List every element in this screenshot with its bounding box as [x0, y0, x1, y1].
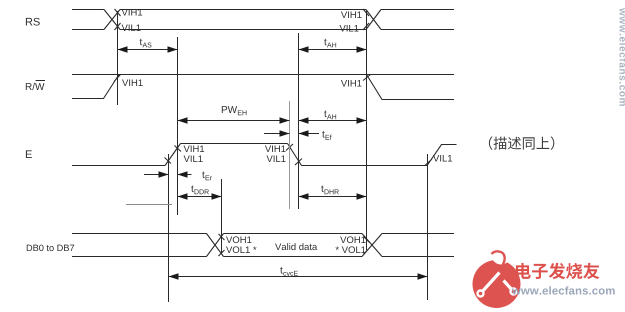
node watermark url text — [512, 286, 615, 294]
wire tcycE dimension arrow — [169, 273, 428, 280]
wire RS low level — [72, 29, 454, 31]
wire R/W low level and rising edge — [72, 75, 121, 99]
wire tEf dimension arrows — [264, 130, 319, 137]
wire dimension reference line tDDR end — [221, 179, 223, 253]
node RS VIH1 label right — [341, 11, 362, 18]
node DB VOL1 label right — [336, 246, 366, 253]
node E VIL1 label left — [184, 155, 203, 162]
node R/W VIH1 label left — [122, 79, 143, 86]
wire dimension reference line vA — [289, 101, 291, 209]
node RS signal name label — [26, 18, 40, 26]
wire tAH dimension arrow middle — [299, 117, 367, 124]
node tDHR label — [321, 186, 339, 195]
node DB0 to DB7 signal name label — [27, 245, 74, 252]
node tDDR label — [191, 186, 209, 195]
node DB valid data label — [275, 243, 317, 250]
node E VIL1 label far right — [433, 155, 452, 162]
wire dimension reference line v6 tcyc end — [427, 154, 429, 300]
wire DB high level — [72, 233, 454, 235]
node E VIH1 label right — [265, 145, 286, 152]
node RS VIL1 label left — [122, 24, 141, 31]
node tAS label — [140, 39, 152, 48]
node tEr label — [202, 172, 212, 181]
wire E low level left — [72, 165, 165, 167]
wire DB low level — [72, 256, 454, 258]
wire dimension reference line v2 — [177, 37, 179, 215]
wire dimension reference line v1 — [117, 11, 119, 105]
wire R/W label overline — [36, 80, 45, 82]
wire E high level — [181, 143, 288, 145]
node R/W signal name label — [26, 83, 45, 90]
wire E rising edge — [165, 144, 182, 166]
node RS left crossover — [104, 9, 121, 30]
node watermark vertical url text — [619, 8, 625, 106]
node R/W VIH1 label right — [341, 80, 362, 87]
wire RS high level — [72, 9, 454, 11]
wire tEr dimension arrows — [144, 171, 192, 178]
node watermark chinese brand text — [516, 263, 599, 279]
wire R/W falling edge and low level — [363, 75, 454, 100]
node DB VOL1 label left — [226, 246, 256, 253]
wire tAH dimension arrow top — [299, 46, 367, 53]
node tAH label top — [324, 39, 336, 48]
node DB right crossover — [362, 234, 382, 257]
wire E low level right — [302, 165, 428, 167]
node DB VOH1 label right — [340, 236, 365, 243]
wire dimension reference line v5 — [366, 11, 368, 250]
wire dimension reference line v3 tcyc start — [168, 154, 170, 302]
node E signal name label — [26, 150, 32, 158]
wire E second rising edge — [425, 145, 457, 166]
node watermark logo circle — [473, 246, 521, 309]
wire tDDR dimension arrow — [178, 193, 222, 200]
wire tDHR dimension arrow — [299, 193, 367, 200]
node RS VIH1 label left — [122, 9, 143, 16]
node RS VIL1 label right — [339, 25, 358, 32]
node chinese annotation — [489, 136, 554, 150]
node DB left crossover — [207, 234, 225, 257]
wire E falling edge — [286, 144, 302, 166]
node E VIH1 label left — [184, 145, 205, 152]
node PWEH label — [222, 106, 247, 115]
wire PWEH dimension arrow — [178, 117, 290, 124]
wire dimension reference line vB — [298, 33, 300, 209]
wire stray leader line — [126, 204, 172, 206]
node RS right crossover — [363, 9, 381, 30]
node tcycE label — [280, 267, 298, 277]
node tAH label middle — [324, 111, 336, 120]
node E VIL1 label right — [266, 155, 285, 162]
node tEf label — [322, 131, 331, 140]
wire tAS dimension arrow — [118, 46, 178, 53]
node DB VOH1 label left — [226, 236, 251, 243]
wire R/W high level — [72, 74, 454, 76]
